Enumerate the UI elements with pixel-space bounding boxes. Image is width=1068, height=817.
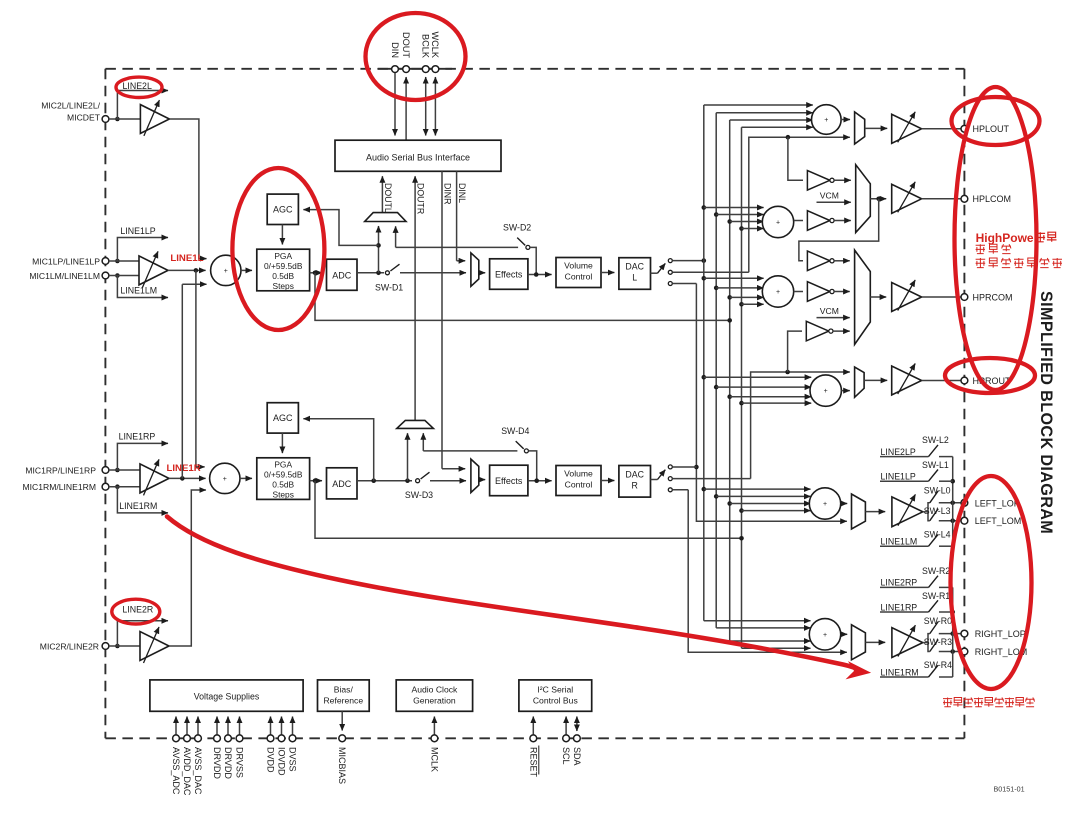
svg-text:Volume: Volume	[564, 261, 593, 271]
svg-text:LINE1RM: LINE1RM	[119, 501, 157, 511]
svg-text:HPLOUT: HPLOUT	[973, 124, 1010, 134]
svg-text:Audio Serial Bus Interface: Audio Serial Bus Interface	[366, 153, 470, 163]
svg-text:MIC2L/LINE2L/: MIC2L/LINE2L/	[41, 101, 100, 111]
svg-text:DOUTL: DOUTL	[383, 183, 393, 213]
svg-text:0/+59.5dB: 0/+59.5dB	[264, 469, 303, 479]
svg-text:+: +	[824, 117, 828, 124]
svg-text:AVDD_DAC: AVDD_DAC	[182, 747, 192, 796]
svg-text:VCM: VCM	[820, 306, 839, 316]
svg-text:SCL: SCL	[561, 747, 571, 765]
svg-text:DINL: DINL	[457, 183, 467, 203]
svg-text:LEFT_LOM: LEFT_LOM	[975, 516, 1022, 526]
svg-text:SW-R3: SW-R3	[924, 637, 952, 647]
svg-text:SW-D2: SW-D2	[503, 222, 531, 232]
svg-text:SW-R0: SW-R0	[924, 616, 952, 626]
svg-text:LINE1RP: LINE1RP	[119, 432, 156, 442]
svg-text:Voltage Supplies: Voltage Supplies	[194, 692, 260, 702]
svg-text:LINE1RP: LINE1RP	[881, 602, 918, 612]
svg-text:LEFT_LOP: LEFT_LOP	[975, 498, 1020, 508]
svg-text:+: +	[823, 501, 827, 508]
svg-text:Steps: Steps	[272, 489, 293, 499]
svg-text:0.5dB: 0.5dB	[272, 479, 294, 489]
svg-text:L: L	[632, 273, 637, 283]
svg-text:Reference: Reference	[323, 696, 363, 706]
svg-text:SW-L1: SW-L1	[922, 460, 949, 470]
svg-text:DAC: DAC	[625, 262, 644, 272]
svg-text:+: +	[224, 268, 228, 275]
svg-text:PGA: PGA	[274, 459, 292, 469]
svg-text:MIC1LP/LINE1LP: MIC1LP/LINE1LP	[32, 257, 100, 267]
svg-text:LINE1LM: LINE1LM	[881, 537, 918, 547]
svg-text:LINE1RM: LINE1RM	[881, 667, 919, 677]
svg-text:+: +	[776, 220, 780, 227]
svg-text:MIC1LM/LINE1LM: MIC1LM/LINE1LM	[29, 271, 100, 281]
svg-text:Control: Control	[565, 480, 593, 490]
svg-text:R: R	[632, 481, 638, 491]
svg-text:MICDET: MICDET	[67, 113, 101, 123]
svg-text:SW-D3: SW-D3	[405, 490, 433, 500]
svg-text:PGA: PGA	[274, 251, 292, 261]
svg-text:Volume: Volume	[564, 469, 593, 479]
svg-text:Audio Clock: Audio Clock	[411, 685, 458, 695]
svg-text:ADC: ADC	[332, 479, 352, 489]
svg-text:+: +	[223, 476, 227, 483]
svg-text:MIC1RM/LINE1RM: MIC1RM/LINE1RM	[22, 482, 96, 492]
svg-text:BCLK: BCLK	[421, 34, 431, 59]
svg-text:IOVDD: IOVDD	[277, 747, 287, 776]
svg-text:ADC: ADC	[332, 271, 352, 281]
svg-text:SW-L2: SW-L2	[922, 435, 949, 445]
svg-text:RESET: RESET	[528, 747, 538, 778]
svg-text:LINE2LP: LINE2LP	[881, 447, 916, 457]
svg-text:AVSS_ADC: AVSS_ADC	[171, 747, 181, 795]
svg-text:LINE1LP: LINE1LP	[881, 472, 916, 482]
svg-text:SW-L0: SW-L0	[924, 485, 951, 495]
svg-text:LINE1LM: LINE1LM	[120, 286, 157, 296]
svg-text:LINE2RP: LINE2RP	[881, 578, 918, 588]
svg-text:Effects: Effects	[495, 270, 523, 280]
svg-text:DAC: DAC	[625, 470, 644, 480]
svg-text:+: +	[776, 289, 780, 296]
svg-text:DRVDD: DRVDD	[223, 747, 233, 779]
svg-text:B0151-01: B0151-01	[994, 785, 1025, 794]
svg-text:DRVDD: DRVDD	[212, 747, 222, 779]
svg-text:Control Bus: Control Bus	[533, 696, 578, 706]
svg-text:Effects: Effects	[495, 476, 523, 486]
svg-text:SW-R2: SW-R2	[922, 566, 950, 576]
svg-text:MIC2R/LINE2R: MIC2R/LINE2R	[40, 642, 99, 652]
svg-text:+: +	[824, 388, 828, 395]
svg-text:0.5dB: 0.5dB	[272, 271, 294, 281]
svg-text:Bias/: Bias/	[334, 685, 354, 695]
svg-text:HPLCOM: HPLCOM	[973, 194, 1012, 204]
svg-text:Steps: Steps	[272, 281, 293, 291]
svg-text:LINE1L: LINE1L	[170, 253, 203, 264]
svg-text:AVSS_DAC: AVSS_DAC	[193, 747, 203, 795]
svg-text:SDA: SDA	[572, 747, 582, 766]
svg-text:SW-D4: SW-D4	[501, 426, 529, 436]
svg-text:DRVSS: DRVSS	[235, 747, 245, 778]
svg-text:SW-L3: SW-L3	[924, 506, 951, 516]
svg-text:LINE2L: LINE2L	[123, 81, 152, 91]
svg-text:HighPowe: HighPowe	[976, 231, 1034, 245]
svg-text:AGC: AGC	[273, 205, 293, 215]
svg-text:LINE1LP: LINE1LP	[120, 226, 155, 236]
svg-text:VCM: VCM	[820, 191, 839, 201]
svg-text:I²C Serial: I²C Serial	[537, 685, 573, 695]
svg-text:Control: Control	[565, 272, 593, 282]
svg-text:DOUT: DOUT	[401, 32, 411, 58]
svg-text:SW-L4: SW-L4	[924, 529, 951, 539]
svg-text:Generation: Generation	[413, 696, 456, 706]
svg-text:WCLK: WCLK	[430, 31, 440, 58]
svg-text:HPRCOM: HPRCOM	[973, 292, 1013, 302]
svg-text:DVSS: DVSS	[288, 747, 298, 772]
svg-text:+: +	[823, 632, 827, 639]
svg-text:LINE2R: LINE2R	[122, 604, 153, 614]
svg-text:AGC: AGC	[273, 413, 293, 423]
svg-text:RIGHT_LOP: RIGHT_LOP	[975, 629, 1026, 639]
svg-text:MCLK: MCLK	[429, 747, 439, 772]
svg-text:SIMPLIFIED BLOCK DIAGRAM: SIMPLIFIED BLOCK DIAGRAM	[1037, 291, 1055, 534]
svg-text:0/+59.5dB: 0/+59.5dB	[264, 261, 303, 271]
svg-text:DINR: DINR	[443, 183, 453, 205]
svg-text:SW-D1: SW-D1	[375, 282, 403, 292]
svg-text:SW-R1: SW-R1	[922, 591, 950, 601]
svg-text:DVDD: DVDD	[266, 747, 276, 773]
svg-text:SW-R4: SW-R4	[924, 660, 952, 670]
svg-text:MICBIAS: MICBIAS	[337, 747, 347, 784]
svg-text:DOUTR: DOUTR	[416, 183, 426, 214]
svg-text:LINE1R: LINE1R	[167, 463, 201, 474]
svg-text:DIN: DIN	[390, 42, 400, 58]
svg-text:MIC1RP/LINE1RP: MIC1RP/LINE1RP	[25, 466, 96, 476]
